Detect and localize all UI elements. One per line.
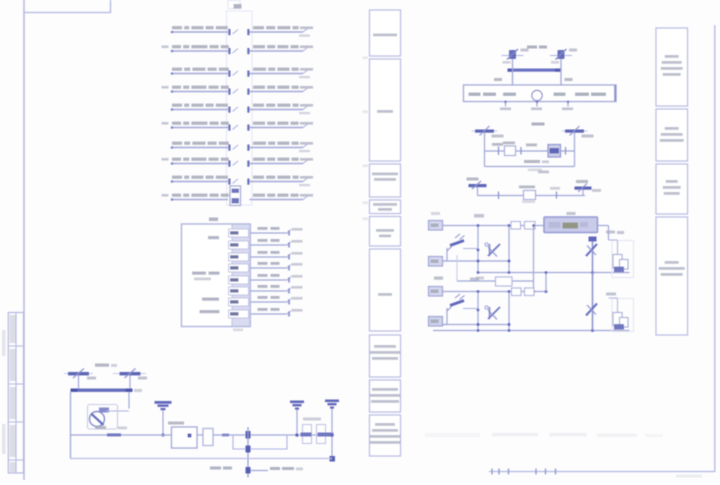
optocoupler U1 phototriac [485,243,500,257]
wire right drop [128,392,130,409]
right column note 4 [659,261,685,276]
circuit row 9 left wire [171,180,228,183]
terminal X3 right [575,180,602,192]
node n1 junction [246,431,251,439]
function column label 8 [370,388,400,403]
vertical net n1 [247,427,249,478]
sensor circuit designator [538,171,549,174]
sensor wire [478,195,586,197]
connector X6 pin 4 [229,264,249,272]
X6 pin 1 wire [251,230,292,236]
regulator DA1 [168,422,197,449]
terminal X2 N [562,126,594,138]
vertical net e [508,290,511,330]
loop note below [528,169,542,172]
connector X1 pin 6 contact pair [228,125,249,131]
panel label KONVEKCIYA [575,93,606,97]
panel label SET [503,93,516,97]
circuit row 8 right labels [253,158,313,161]
connector X1 pin 2 contact pair [228,48,249,54]
wire X2L down [484,133,486,152]
channel 1 designator [431,212,484,218]
X6 pin 4 labels [258,262,303,266]
circuit row 6 left labels [162,122,229,125]
connector X6 pin 6 [229,287,249,295]
snubber R4 [609,240,623,268]
left margin inventory table [8,313,23,474]
vertical net d [477,290,480,330]
circuit row 7 right labels [253,142,313,153]
A1 internal label 4 [200,310,220,313]
feed wire to channel 2 [545,271,548,291]
circuit row 4 right labels [253,86,313,89]
connector X1 pin 7 contact pair [228,145,249,151]
terminal block X4 pin 1 [429,221,443,231]
faint pencil note above title block [425,433,663,437]
connector X6 pin 7 [229,298,249,306]
terminal block X4 pin 2 [429,257,443,267]
circuit row 6 right wire [250,124,308,128]
wire SA1b to panel [560,59,562,85]
output wire [251,470,269,472]
X6 pin 2 labels [258,239,303,243]
capacitor C4 [301,418,322,444]
X6 pin 7 wire [251,299,292,305]
circuit row 8 left wire [171,162,228,165]
X6 pin 3 wire [251,254,292,260]
circuit row 7 left labels [172,142,229,145]
sheet frame left border [23,0,25,480]
function column label 2 [377,110,393,113]
connector X6 pin 8 [229,310,249,318]
output right label [270,467,303,470]
function column label 1 [373,34,397,37]
circuit row 10 left labels [162,194,229,197]
circuit row 10 left wire [171,198,228,201]
circuit row 5 left labels [172,104,228,107]
circuit row 2 right wire [250,48,308,52]
resistor R3 [496,277,513,286]
channel 2 designator [470,278,479,281]
connector X1 pin 1 contact pair [228,29,249,35]
relay K1 designator [532,123,545,126]
channel 2 gate note [606,293,616,296]
control loop top wire [485,150,575,152]
X6 pin 3 labels [258,251,303,255]
function column label 4 [373,203,397,211]
wire X2N down [574,133,576,152]
return wire [71,458,333,460]
connector X6 pin 2 [229,241,249,249]
channel 2 rail [433,329,630,332]
circuit row 7 right wire [250,144,308,148]
far-left faint margin text [2,330,6,454]
transformer T1 [88,405,130,430]
A1 internal label 1 [208,236,219,239]
function column label 9 [370,423,400,444]
connector X6 pin 5 [229,276,249,284]
channel 1 top wire [443,225,546,227]
right notes column frame [656,28,688,335]
ground symbol G0 [155,401,172,437]
terminal X3 left [467,178,487,190]
A1 internal label 3 [202,298,219,301]
wire X3R down [582,190,584,196]
circuit row 2 right labels [253,45,313,48]
circuit row 6 right labels [253,122,313,125]
connector X1 pin 8 contact pair [228,161,249,167]
snubber outline 2 [612,299,634,332]
MCU block designator [209,218,218,222]
interstage wire [434,255,534,281]
main low wire [71,434,172,436]
channel 2 top wire [443,290,548,293]
X6 pin 6 wire [251,288,292,294]
channel 1 lower wire [443,260,511,263]
connector X1 designator label [228,1,242,9]
circuit row 5 left wire [171,108,228,111]
X6 pin 7 labels [258,296,303,300]
wire n1 to out [300,434,334,436]
capacitor C5 [317,425,334,444]
sensor body BK1 [519,186,536,203]
resistor R6 [525,288,535,296]
connector X1 pin 4 contact pair [228,89,249,95]
control panel A1 outline [464,85,617,102]
wire X3L down [477,187,479,196]
wire N down [129,376,131,390]
panel label RAZOGREV [469,93,497,97]
circuit row 3 right labels [253,68,313,79]
thermostat label [524,160,549,163]
terminal X2 L [472,126,504,138]
connector X1 pin 9 contact pair [228,179,249,185]
snubber C1 [614,260,628,273]
A1 note below [233,329,243,332]
circuit row 9 right wire [250,178,308,182]
MCU block A1 outline [182,224,251,327]
ground symbol G2 [325,400,339,462]
right column note 2 [660,127,684,142]
function column label 6 [378,293,392,296]
circuit row 1 left labels [172,26,228,29]
snubber R7 [609,298,623,326]
sensor tick 1 [498,192,500,200]
wire to node n1 [213,434,297,437]
connector X1 pin 3 contact pair [228,71,249,77]
relay K1 coil [548,145,566,158]
contact tick 1 [492,143,503,155]
panel label VKL [554,93,566,97]
right column note 1 [661,55,683,76]
connector X1 pin 5 contact pair [228,107,249,113]
X6 pin 5 labels [258,274,303,278]
X6 pin 6 labels [258,285,303,289]
circuit row 8 left labels [162,158,229,161]
optocoupler U2 LED [443,294,480,325]
circuit row 8 right wire [250,160,308,164]
top-left corner stamp box [24,0,111,13]
circuit row 5 right wire [250,106,308,110]
circuit row 1 left wire [171,31,228,34]
filter link bar [71,389,143,393]
circuit row 4 right wire [250,88,308,92]
optocoupler U1 LED [443,234,480,261]
sheet frame right border [714,25,716,472]
channel 2 lower wire [443,323,511,326]
circuit row 2 left wire [171,50,228,53]
driver IC D1 [544,212,598,233]
connector X1 column outline [227,11,253,205]
channel 1 rail [477,271,630,274]
circuit row 10 right labels [253,194,313,197]
wire X2N lower [574,151,576,167]
X6 pin 1 labels [258,227,303,231]
wire X2L lower [484,151,486,167]
function column label 7 [370,345,400,360]
switch SA1 contact b [550,49,577,64]
X6 pin 8 wire [251,311,292,317]
connector X6 pin 3 [229,253,249,261]
contact tick 2 [521,144,537,155]
fuse block between rows 9 and 10 [230,186,241,206]
switch SA1 contact a [502,49,529,64]
capacitor C3 [203,429,213,446]
vertical net c [532,224,535,291]
panel lamp HL1 [532,90,542,100]
triac VS2 [586,273,597,331]
output row label [210,467,232,470]
circuit row 4 left wire [171,90,228,93]
triac gate note [606,231,624,235]
wire left drop [70,392,72,459]
diode segment [95,426,127,436]
connector X1 pin 10 contact pair [0,0,1,1]
branch loop wire [233,435,287,453]
output node junction [246,467,251,474]
triac VS1 [586,237,597,273]
circuit row 2 left labels [162,45,229,48]
circuit row 7 left wire [171,146,228,149]
terminal block X5 pin 1 [429,287,443,297]
wire label ob right [565,78,573,81]
function column frame [370,10,401,456]
sensor tick 2 [550,187,560,199]
wire SA1a to panel [512,59,514,85]
resistor R1 [511,222,521,230]
IC output wire [598,226,609,241]
circuit row 3 left wire [171,72,228,75]
switch SA1 designator [527,46,547,49]
title block top edge [489,469,715,475]
circuit row 9 left labels [172,176,228,179]
circuit row 1 right labels [253,26,313,37]
resistor R2 [525,222,536,230]
resistor R5 [512,288,522,296]
circuit row 5 right labels [253,104,313,115]
vertical net b [508,224,511,272]
faint title block text [676,475,702,478]
circuit row 6 left wire [171,126,228,129]
circuit row 9 right labels [253,176,313,187]
A1 internal label 2 [192,272,220,281]
panel pin stub 2 [531,101,542,111]
circuit row 3 right wire [250,70,308,74]
circuit row 1 right wire [250,29,308,33]
circuit row 4 left labels [162,86,229,89]
terminal block X5 pin 2 [429,317,443,327]
connector X6 pin column [232,224,251,327]
X6 pin 4 wire [251,265,292,271]
function column label 5 [376,229,394,237]
vertical net a [477,224,480,272]
right column note 3 [663,180,681,195]
power terminal designator [95,364,117,367]
connector X6 pin 1 [229,229,249,237]
wire after DA1 [197,434,203,436]
control loop bottom wire [485,166,575,168]
circuit row 3 left labels [172,68,229,71]
function column label 3 [372,173,398,181]
link bar between SA1 contacts [508,69,562,72]
snubber outline [612,241,634,278]
panel pin stub 3 [562,101,573,111]
power terminal N [113,369,147,380]
ground symbol G1 [290,401,304,437]
wire L down [78,376,80,390]
snubber C2 [614,318,628,330]
panel pin stub 1 [500,101,511,111]
optocoupler U2 phototriac [485,306,500,320]
function column side marks [363,57,369,221]
switch SB1 body [503,142,516,156]
X6 pin 5 wire [251,277,292,283]
wire label ob left [494,78,502,81]
X6 pin 2 wire [251,242,292,248]
circuit row 10 right wire [250,196,308,200]
X6 pin 8 labels [258,308,303,312]
power terminal L [64,369,96,380]
